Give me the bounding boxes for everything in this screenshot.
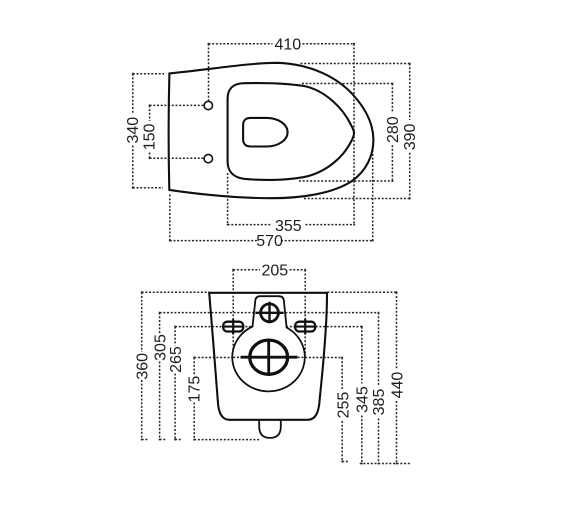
dim 345 line	[361, 327, 363, 464]
svg-text:280: 280	[385, 116, 402, 143]
flush opening (D shape)	[243, 118, 287, 147]
dim 265 line	[175, 327, 362, 440]
outlet cross	[241, 339, 298, 376]
dim 175 line	[194, 358, 342, 440]
svg-text:360: 360	[135, 353, 152, 380]
dim 410 line	[209, 44, 355, 225]
dim 305 line	[160, 313, 379, 440]
dim 255 line	[342, 358, 349, 462]
svg-text:440: 440	[390, 372, 407, 399]
svg-text:390: 390	[402, 123, 419, 150]
toilet body outline (back view)	[209, 293, 327, 420]
left fixing bolt	[223, 319, 244, 334]
inlet cross	[255, 302, 283, 324]
svg-text:150: 150	[141, 123, 158, 150]
toilet lid outline (top view)	[169, 63, 374, 198]
dim 570 line	[170, 147, 373, 241]
dim 360 line	[142, 292, 210, 439]
mounting tab and outlet ring (keyhole)	[232, 296, 305, 391]
svg-text:410: 410	[274, 36, 301, 53]
dim 385 line	[378, 313, 380, 464]
seat ring outline	[228, 83, 354, 180]
svg-text:340: 340	[125, 117, 142, 144]
dim 355 line	[228, 173, 355, 225]
hinge hole top	[204, 101, 212, 109]
dim 340 line	[133, 74, 164, 188]
flush pipe bump	[259, 420, 281, 438]
inlet circle	[261, 304, 279, 322]
dim 150 line	[150, 105, 204, 158]
svg-text:175: 175	[186, 376, 203, 403]
outlet circle	[250, 340, 288, 374]
dimension corner dots	[133, 44, 410, 464]
ring interior dotted segments	[233, 356, 304, 358]
svg-text:205: 205	[261, 262, 288, 279]
svg-text:255: 255	[336, 392, 353, 419]
svg-text:385: 385	[371, 389, 388, 416]
dim 205 line	[233, 270, 305, 357]
right fixing bolt	[295, 319, 316, 334]
svg-text:265: 265	[168, 346, 185, 373]
dim 390 line	[301, 64, 410, 199]
hinge hole bottom	[204, 154, 212, 162]
svg-text:345: 345	[355, 386, 372, 413]
dim 280 line	[299, 84, 392, 182]
dim 440 line	[328, 292, 411, 463]
svg-text:570: 570	[256, 233, 283, 250]
